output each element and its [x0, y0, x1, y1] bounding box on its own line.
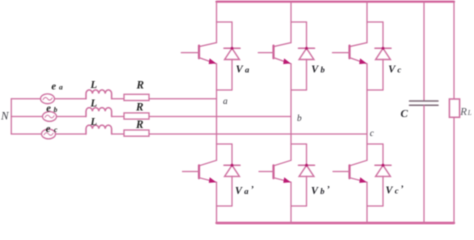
capacitor C branch bottom wire	[423, 106, 425, 224]
svg-text:R: R	[459, 106, 467, 118]
wire: phase c from bus to inductor	[11, 133, 86, 135]
svg-text:R: R	[135, 119, 144, 131]
wire: neutral bus vertical	[10, 99, 12, 134]
svg-text:c: c	[397, 64, 401, 74]
wire: leg b middle	[290, 64, 292, 161]
svg-text:L: L	[90, 116, 98, 128]
svg-text:b: b	[54, 105, 58, 114]
inductor L phase c	[86, 125, 112, 134]
diode Vb branch	[291, 22, 315, 90]
svg-text:e: e	[46, 104, 51, 115]
svg-text:c: c	[54, 125, 58, 134]
svg-text:b: b	[320, 186, 324, 196]
wire: right edge vertical (RL branch)	[453, 2, 455, 99]
resistor R phase c	[124, 130, 149, 136]
svg-text:V: V	[386, 186, 394, 197]
svg-text:b: b	[321, 64, 325, 74]
svg-text:V: V	[311, 64, 319, 75]
svg-text:C: C	[401, 108, 409, 120]
capacitor C plates	[410, 100, 439, 102]
svg-text:’: ’	[401, 184, 404, 194]
svg-text:c: c	[370, 128, 374, 138]
svg-text:b: b	[297, 113, 302, 123]
svg-text:V: V	[311, 186, 319, 197]
capacitor C branch top wire	[423, 2, 425, 101]
transistor Vb	[258, 43, 291, 65]
resistor RL	[449, 99, 459, 117]
svg-text:L: L	[90, 79, 98, 91]
wire: DC bottom rail	[217, 222, 455, 224]
inductor L phase a	[86, 90, 112, 99]
svg-text:R: R	[135, 101, 144, 113]
diode Vc branch	[367, 22, 391, 90]
resistor R phase b	[124, 113, 149, 119]
wire: leg c lower	[366, 182, 368, 223]
svg-text:a: a	[223, 96, 228, 106]
svg-text:V: V	[235, 186, 243, 197]
source eb	[43, 112, 57, 122]
svg-text:L: L	[467, 109, 472, 117]
svg-text:a: a	[245, 64, 250, 74]
svg-text:e: e	[46, 124, 51, 135]
diode Vb' branch	[291, 144, 315, 206]
wire: leg a upper	[216, 2, 218, 43]
resistor R phase a	[124, 94, 149, 100]
svg-text:R: R	[136, 80, 145, 92]
wire: phase b from inductor to node b on leg b	[112, 116, 291, 118]
wire: DC top rail	[217, 1, 455, 3]
wire: leg c middle	[366, 64, 368, 161]
wire: phase a from bus to inductor	[11, 98, 86, 100]
svg-text:c: c	[395, 186, 399, 196]
svg-text:a: a	[244, 186, 249, 196]
source ea	[41, 94, 55, 104]
svg-text:L: L	[90, 98, 98, 110]
wire: phase c from inductor to node c on leg c	[112, 133, 367, 135]
source ec	[42, 129, 56, 139]
wire: leg b upper	[290, 2, 292, 43]
transistor Va'	[183, 160, 217, 183]
diode Vc' branch	[367, 144, 391, 206]
diode Va branch	[217, 22, 241, 90]
svg-text:e: e	[51, 81, 56, 92]
wire: leg c upper	[366, 2, 368, 43]
wire: leg a lower	[216, 182, 218, 223]
svg-text:’: ’	[327, 184, 330, 194]
inductor L phase b	[86, 108, 112, 117]
wire: phase b from bus to inductor	[11, 116, 86, 118]
svg-text:V: V	[388, 64, 396, 75]
svg-text:N: N	[0, 110, 10, 122]
transistor Vb'	[259, 160, 291, 183]
svg-text:’: ’	[251, 184, 254, 194]
transistor Vc'	[333, 160, 367, 183]
wire: leg b lower	[290, 182, 292, 223]
svg-text:a: a	[59, 83, 63, 92]
transistor Vc	[333, 43, 368, 65]
wire: leg a middle	[216, 64, 218, 161]
wire: phase a from inductor to node a on leg a	[112, 98, 217, 100]
svg-text:V: V	[236, 64, 244, 75]
transistor Va	[181, 43, 216, 65]
diode Va' branch	[217, 144, 241, 206]
